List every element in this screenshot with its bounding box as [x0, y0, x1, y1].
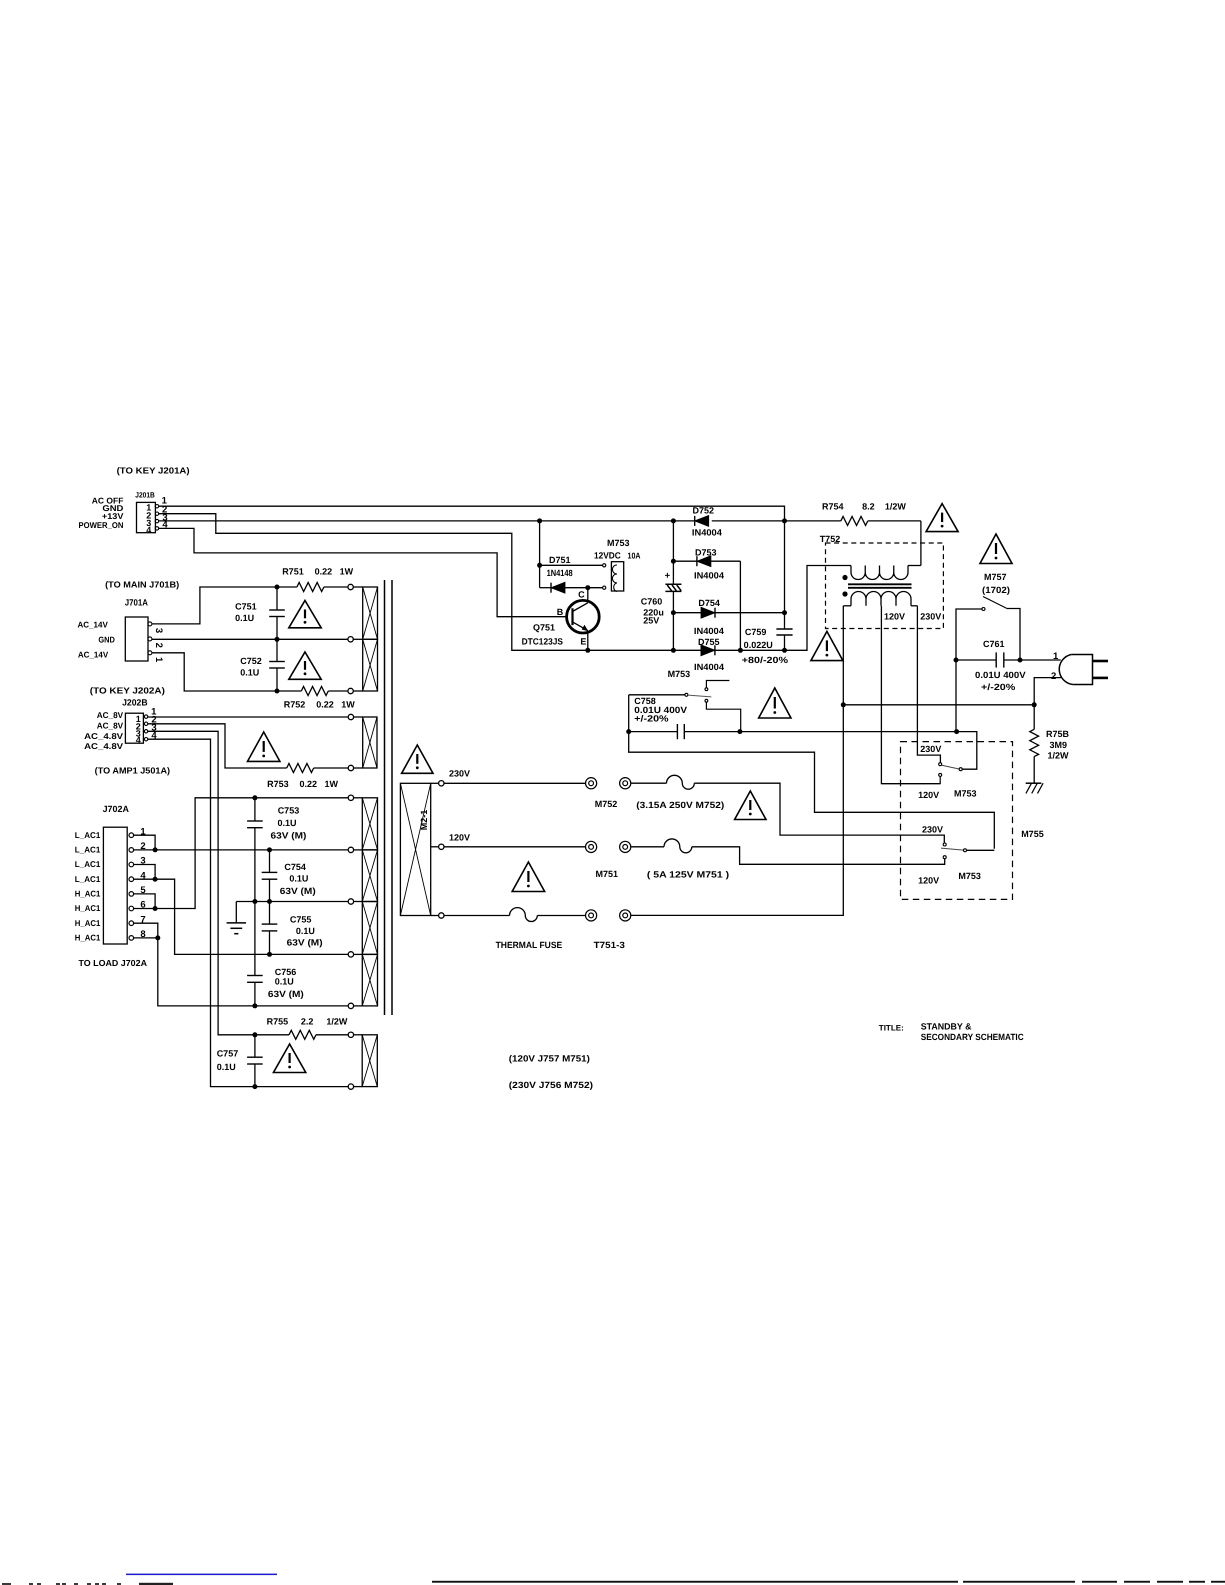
svg-text:GND: GND — [98, 635, 115, 645]
resistor R755 — [255, 1030, 348, 1039]
node D754 branch junction — [671, 610, 676, 615]
svg-text:120V: 120V — [918, 875, 939, 885]
wire J201B pin4 (POWER_ON) to Q751 base — [159, 528, 567, 616]
wire thermal fuse row — [444, 915, 510, 917]
capacitor C759 — [776, 629, 792, 650]
svg-text:0.1U: 0.1U — [217, 1062, 236, 1072]
node D752 bus right junction — [782, 518, 787, 523]
pin 4 J702A — [129, 870, 146, 881]
wire D753 to emitter bus — [739, 561, 741, 650]
svg-text:H_AC1: H_AC1 — [75, 889, 101, 899]
wire relay top contact — [540, 564, 603, 566]
capacitor C761 — [956, 652, 1020, 667]
wire J201B pin3 (+13V) D752 bus — [159, 520, 695, 522]
svg-text:25V: 25V — [643, 615, 659, 625]
svg-text:C754: C754 — [284, 862, 306, 872]
footer blue underline — [126, 1574, 277, 1576]
svg-text:(230V J756 M752): (230V J756 M752) — [509, 1080, 593, 1090]
terminal common tap — [431, 913, 444, 918]
warning triangle below T752 — [811, 631, 843, 660]
svg-text:63V (M): 63V (M) — [271, 830, 307, 840]
svg-text:2: 2 — [153, 643, 164, 648]
node C761 left junction — [954, 658, 959, 663]
svg-text:R754: R754 — [822, 502, 844, 512]
capacitor C753 — [247, 798, 306, 902]
warning triangle near J202B — [248, 732, 280, 761]
wire D752 bus to R754 — [712, 520, 841, 522]
node C757 bottom junction — [252, 1084, 257, 1089]
svg-text:0.22: 0.22 — [315, 567, 333, 577]
terminal 120V tap — [431, 844, 444, 849]
switch M753 upper (in M755) — [881, 763, 962, 784]
node ground bus left junction — [252, 899, 257, 904]
wire ground bus — [236, 901, 348, 903]
terminal J756 double circle left — [586, 778, 597, 789]
transformer T752 primary coil — [851, 566, 921, 580]
capacitor C757 — [217, 1035, 263, 1087]
capacitor C756 — [247, 902, 304, 1006]
pin 2 J702A — [129, 841, 146, 852]
svg-text:STANDBY &: STANDBY & — [921, 1022, 972, 1032]
terminal T751-3 double circle right — [620, 910, 631, 921]
wire J201B pin1 to D752 bus right leg — [159, 506, 785, 521]
phase dot primary — [842, 575, 847, 580]
wire secondary 230V tap — [917, 606, 940, 763]
svg-text:IN4004: IN4004 — [694, 570, 724, 580]
transformer T752 secondary coil — [843, 592, 917, 606]
svg-text:M753: M753 — [958, 871, 981, 881]
transformer winding W2 (AC_8V secondary) — [348, 714, 377, 770]
svg-text:M751: M751 — [596, 869, 619, 879]
resistor R752 — [277, 687, 348, 696]
wire C761 left to C758 bus — [955, 660, 957, 732]
capacitor C752 — [240, 639, 284, 691]
resistor R751 — [277, 583, 348, 592]
pin 1 J702A — [129, 826, 146, 837]
svg-text:(TO KEY J201A): (TO KEY J201A) — [117, 465, 190, 475]
resistor R753 — [287, 764, 349, 773]
wire 120V row to link M751 — [444, 846, 586, 848]
switch M753 line selector — [629, 681, 741, 732]
svg-text:L_AC1: L_AC1 — [75, 830, 101, 840]
svg-text:0.022U: 0.022U — [744, 640, 773, 650]
svg-text:3M9: 3M9 — [1050, 740, 1068, 750]
diode D754 — [673, 607, 784, 618]
svg-text:TO LOAD J702A: TO LOAD J702A — [79, 958, 148, 968]
svg-text:120V: 120V — [918, 790, 939, 800]
svg-text:+: + — [665, 571, 671, 582]
svg-text:C760: C760 — [641, 597, 663, 607]
svg-text:D752: D752 — [693, 505, 715, 515]
svg-text:THERMAL FUSE: THERMAL FUSE — [496, 940, 563, 950]
wire secondary left tap bus — [843, 704, 1034, 706]
svg-text:1W: 1W — [341, 700, 355, 710]
resistor R758 — [1030, 705, 1039, 783]
svg-text:230V: 230V — [922, 825, 943, 835]
svg-text:1: 1 — [153, 657, 164, 663]
svg-text:(3.15A 250V M752): (3.15A 250V M752) — [636, 800, 724, 810]
node R752 left junction — [275, 689, 280, 694]
svg-text:D754: D754 — [698, 598, 720, 608]
transformer core line right — [391, 580, 393, 1015]
relay M753 coil — [603, 562, 624, 592]
svg-text:M2-1: M2-1 — [419, 810, 429, 831]
AC plug P1 — [1059, 655, 1108, 685]
svg-text:J701A: J701A — [125, 598, 149, 608]
svg-text:0.1U: 0.1U — [278, 818, 297, 828]
svg-text:M753: M753 — [668, 669, 691, 679]
transformer T752 box — [826, 543, 944, 629]
node C758 bus right junction — [954, 729, 959, 734]
wire J702A pin8 join — [134, 937, 158, 939]
fuse M751 — [631, 839, 692, 853]
svg-text:R753: R753 — [267, 779, 289, 789]
svg-text:POWER_ON: POWER_ON — [79, 520, 124, 530]
thermal fuse T751-3 — [510, 908, 586, 922]
svg-text:TITLE:: TITLE: — [879, 1023, 904, 1032]
svg-text:0.1U: 0.1U — [235, 613, 254, 623]
svg-text:M757: M757 — [984, 572, 1007, 582]
terminal T751-3 double circle left — [586, 910, 597, 921]
svg-text:1/2W: 1/2W — [326, 1017, 348, 1027]
svg-text:0.1U: 0.1U — [289, 874, 308, 884]
node C753 top junction — [252, 795, 257, 800]
node relay feed junction — [537, 563, 542, 568]
svg-text:M753: M753 — [607, 538, 630, 548]
svg-text:IN4004: IN4004 — [694, 662, 724, 672]
wire secondary 120V tap — [881, 606, 940, 784]
svg-text:1: 1 — [1053, 651, 1059, 662]
wire plug pin1 — [1020, 659, 1061, 661]
svg-text:0.22: 0.22 — [316, 700, 334, 710]
pin 7 J702A — [129, 914, 146, 925]
svg-text:120V: 120V — [449, 833, 470, 843]
transformer T752 core — [848, 584, 912, 588]
wire C759 branch — [784, 521, 786, 629]
node secondary bus right — [1032, 702, 1037, 707]
wire J202B pin3 to R755 line — [148, 731, 255, 1035]
svg-text:230V: 230V — [920, 611, 941, 621]
svg-text:8.2: 8.2 — [862, 502, 875, 512]
wire J201B pin2 (GND) to emitter bus — [159, 514, 701, 651]
svg-text:C751: C751 — [235, 601, 257, 611]
svg-text:L_AC1: L_AC1 — [75, 845, 101, 855]
svg-text:(120V J757 M751): (120V J757 M751) — [509, 1053, 590, 1063]
chassis ground — [1026, 783, 1043, 793]
wire J702A pin1 to pin2 — [134, 835, 156, 850]
svg-text:D753: D753 — [695, 548, 717, 558]
svg-text:H_AC1: H_AC1 — [75, 933, 101, 943]
wire J702A pin7 to C756 bottom bus — [134, 923, 349, 1006]
node pin7-8 junction — [155, 935, 160, 940]
terminal J756 double circle right — [620, 778, 631, 789]
svg-text:+/-20%: +/-20% — [981, 682, 1015, 692]
svg-text:B: B — [557, 607, 564, 617]
svg-text:4: 4 — [146, 525, 151, 535]
pin 3 J702A — [129, 856, 146, 867]
switch M757 (voltage selector) — [956, 597, 1020, 661]
node GND line junction — [275, 637, 280, 642]
svg-text:(TO KEY J202A): (TO KEY J202A) — [90, 686, 165, 696]
svg-text:(TO MAIN J701B): (TO MAIN J701B) — [105, 579, 179, 589]
node C758 bus mid junction — [737, 729, 742, 734]
svg-text:+/-20%: +/-20% — [634, 714, 668, 724]
svg-text:230V: 230V — [920, 744, 941, 754]
node ground bus right junction — [267, 899, 272, 904]
svg-text:230V: 230V — [449, 768, 470, 778]
node C754 top junction — [267, 847, 272, 852]
capacitor C751 — [235, 587, 285, 639]
wire J701A pin2 GND line — [152, 638, 348, 640]
svg-text:Q751: Q751 — [533, 622, 555, 632]
wire M752 fuse to lower M753 230V contact — [694, 783, 944, 843]
svg-text:J702A: J702A — [103, 804, 130, 814]
svg-text:M755: M755 — [1021, 829, 1044, 839]
svg-text:AC_14V: AC_14V — [78, 650, 109, 660]
wire M753 pole to C758 bus — [628, 695, 630, 732]
warning triangle below M751 row — [512, 862, 545, 892]
svg-text:M753: M753 — [954, 789, 977, 799]
terminal 230V tap — [431, 781, 444, 786]
wire J702A pin2 to C753 mid bus — [134, 849, 349, 851]
warning triangle above M2-1 — [402, 745, 433, 773]
svg-text:12VDC: 12VDC — [594, 551, 621, 561]
svg-text:AC_8V: AC_8V — [97, 710, 124, 720]
wire M751 fuse to lower M753 120V contact — [692, 847, 945, 865]
svg-text:63V (M): 63V (M) — [287, 938, 323, 948]
terminal J757 double circle left — [586, 841, 597, 852]
svg-text:0.1U: 0.1U — [275, 977, 294, 987]
svg-text:AC_14V: AC_14V — [78, 620, 109, 630]
connector J702A — [103, 827, 127, 944]
capacitor C760 (polarized) — [665, 571, 682, 651]
footer rule right — [432, 1581, 1225, 1583]
warning triangle near C757 — [273, 1044, 305, 1073]
svg-text:L_AC1: L_AC1 — [75, 874, 101, 884]
wire J202B pin2 to R753 — [148, 724, 287, 768]
pin 8 J702A — [129, 929, 146, 940]
svg-text:T751-3: T751-3 — [594, 940, 625, 950]
svg-text:C755: C755 — [290, 915, 312, 925]
wire J702A pin4 to C755 bottom bus — [134, 879, 349, 954]
node D754 right junction — [782, 610, 787, 615]
transformer winding W4 (AC_4.8V secondary) — [348, 1032, 377, 1089]
wire C758 bus branch to lower M753 common — [629, 732, 995, 849]
footer cut text remnants — [2, 1583, 173, 1585]
wire +13V drop to D751 — [539, 521, 541, 588]
wire R754 to primary right — [920, 521, 922, 566]
phase dot secondary — [842, 591, 847, 596]
svg-text:R751: R751 — [282, 567, 304, 577]
node R751 left junction — [275, 585, 280, 590]
wire emitter bus right of D755 — [714, 566, 851, 651]
node C756 bottom junction — [252, 1003, 257, 1008]
node Q751 emitter on bus — [585, 648, 590, 653]
warning triangle right of M752 label — [735, 791, 766, 820]
warning triangle near C752 — [289, 652, 321, 679]
svg-text:M752: M752 — [595, 799, 618, 809]
terminal J757 double circle right — [620, 841, 631, 852]
node C755 bottom junction — [267, 952, 272, 957]
node C761 right junction — [1018, 658, 1023, 663]
svg-text:DTC123JS: DTC123JS — [522, 636, 563, 646]
svg-text:+80/-20%: +80/-20% — [742, 655, 788, 665]
wire J202B pin1 to winding W2 — [148, 716, 348, 718]
svg-text:C759: C759 — [745, 627, 767, 637]
pin 5 J702A — [129, 885, 146, 896]
svg-text:1N4148: 1N4148 — [547, 568, 573, 578]
svg-text:1W: 1W — [325, 779, 339, 789]
svg-text:120V: 120V — [884, 611, 905, 621]
svg-text:L_AC1: L_AC1 — [75, 859, 101, 869]
svg-text:2.2: 2.2 — [301, 1017, 314, 1027]
capacitor C758 — [629, 724, 740, 739]
warning triangle near C758 — [759, 688, 791, 718]
selector box M755 — [901, 742, 1013, 900]
svg-text:E: E — [580, 636, 586, 646]
svg-text:J202B: J202B — [122, 698, 148, 708]
svg-text:(1702): (1702) — [982, 585, 1010, 595]
svg-text:( 5A 125V M751 ): ( 5A 125V M751 ) — [647, 870, 729, 880]
svg-text:AC_4.8V: AC_4.8V — [84, 731, 123, 741]
svg-text:0.1U: 0.1U — [296, 926, 315, 936]
svg-text:4: 4 — [151, 731, 157, 742]
svg-text:10A: 10A — [628, 551, 641, 561]
node D752 bus at x539 — [537, 518, 542, 523]
svg-text:C761: C761 — [983, 639, 1005, 649]
svg-text:H_AC1: H_AC1 — [75, 918, 101, 928]
node pin3-4 junction — [153, 877, 158, 882]
wire J701A pin3 to R751 line — [152, 587, 277, 624]
connector J202B — [122, 698, 157, 745]
node secondary bus left — [841, 702, 846, 707]
diode D752 — [694, 516, 696, 526]
transformer primary winding M2-1 — [400, 783, 430, 915]
node pin5-6 junction — [153, 906, 158, 911]
svg-text:3: 3 — [153, 628, 164, 633]
connector J201B — [135, 491, 168, 535]
svg-text:SECONDARY SCHEMATIC: SECONDARY SCHEMATIC — [921, 1032, 1024, 1042]
diode D755 — [701, 645, 715, 656]
earth ground symbol — [227, 902, 246, 934]
resistor R754 — [841, 516, 921, 525]
capacitor C755 — [262, 902, 323, 955]
node C760 bottom on bus — [671, 648, 676, 653]
svg-text:0.22: 0.22 — [300, 779, 318, 789]
diode D753 — [673, 556, 740, 567]
svg-text:4: 4 — [136, 735, 141, 745]
warning triangle near C751 — [289, 601, 321, 628]
transformer core line left — [384, 580, 386, 1015]
node pin1-2 junction — [153, 847, 158, 852]
svg-text:IN4004: IN4004 — [692, 528, 722, 538]
fuse M752 — [631, 775, 695, 789]
wire plug pin2 — [1034, 678, 1061, 705]
wire C758 bus to M755 upper switch — [740, 732, 977, 770]
svg-text:1/2W: 1/2W — [1048, 751, 1070, 761]
svg-text:R752: R752 — [284, 700, 306, 710]
wire 230V row to link M752 — [444, 782, 586, 784]
wire J702A pin6 to C753 top bus — [134, 798, 349, 909]
warning triangle right of R754 — [926, 504, 958, 532]
svg-text:1/2W: 1/2W — [885, 502, 907, 512]
svg-text:C757: C757 — [217, 1048, 239, 1058]
diode D751 — [540, 582, 603, 593]
svg-text:1W: 1W — [340, 567, 354, 577]
switch M753 lower (in M755) — [941, 843, 994, 859]
svg-text:C753: C753 — [278, 806, 300, 816]
svg-text:J201B: J201B — [135, 491, 155, 500]
transistor Q751 — [557, 588, 599, 651]
wire J202B pin4 to C757 bottom bus — [148, 739, 255, 1086]
wire thermal fuse to transformer tap — [631, 606, 844, 916]
node C759 bottom on bus — [782, 648, 787, 653]
svg-text:0.1U: 0.1U — [240, 668, 259, 678]
wire J702A pin5 to pin6 — [134, 894, 156, 909]
warning triangle above M757 — [980, 534, 1012, 564]
svg-text:H_AC1: H_AC1 — [75, 903, 101, 913]
node C760 top junction — [671, 518, 676, 523]
pin 6 J702A — [129, 900, 146, 911]
node D753 bus junction — [738, 648, 743, 653]
wire J702A pin3 to pin4 — [134, 865, 156, 880]
transformer winding W3 (L/H_AC1 secondary) — [348, 795, 377, 1009]
transformer winding W1 (AC_14V secondary) — [348, 584, 378, 693]
wire J701A pin1 to R752 line — [152, 653, 277, 691]
svg-text:63V (M): 63V (M) — [268, 989, 304, 999]
svg-text:0.01U 400V: 0.01U 400V — [975, 670, 1026, 680]
svg-text:C: C — [578, 590, 585, 600]
svg-text:R755: R755 — [267, 1017, 289, 1027]
node D751 to collector junction — [585, 585, 590, 590]
svg-text:2: 2 — [1051, 671, 1056, 682]
connector J701A — [125, 598, 164, 663]
svg-text:D755: D755 — [698, 637, 720, 647]
svg-text:63V (M): 63V (M) — [280, 886, 316, 896]
svg-text:C756: C756 — [275, 967, 297, 977]
wire C757 bottom bus — [255, 1086, 348, 1088]
svg-text:D751: D751 — [549, 555, 571, 565]
svg-text:IN4004: IN4004 — [694, 626, 724, 636]
svg-text:(TO AMP1 J501A): (TO AMP1 J501A) — [95, 765, 170, 775]
node D753 branch junction — [671, 559, 676, 564]
capacitor C754 — [262, 850, 316, 902]
svg-text:C752: C752 — [240, 656, 262, 666]
node R755 left junction — [252, 1032, 257, 1037]
wire C760 branch — [672, 521, 674, 585]
svg-text:AC_4.8V: AC_4.8V — [84, 741, 123, 751]
node C758 bus left junction — [626, 729, 631, 734]
svg-text:AC_8V: AC_8V — [97, 720, 124, 730]
svg-text:R75B: R75B — [1046, 729, 1070, 739]
